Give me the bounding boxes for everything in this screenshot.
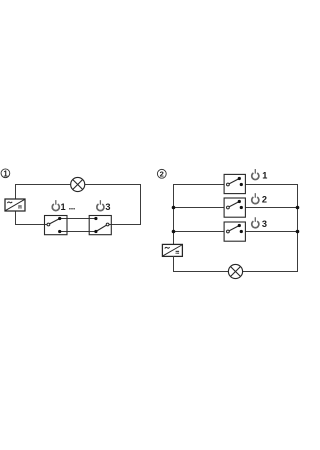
svg-text:2: 2 bbox=[160, 170, 164, 179]
wire: row1 output to right bus bbox=[241, 184, 297, 186]
wire: circuit2 left bus bbox=[173, 184, 175, 245]
wire: S2 output to right rail bbox=[108, 224, 141, 226]
lamp E2 bbox=[228, 264, 242, 278]
wire: S1-S2 lower link bbox=[60, 231, 96, 233]
junction dot left bus row3 bbox=[172, 230, 176, 234]
power icon above S1 bbox=[52, 200, 59, 210]
switch S2 (circuit1 right changeover) bbox=[89, 216, 111, 235]
wire: circuit2 branch row3 bbox=[173, 231, 227, 233]
junction dot right bus row3 bbox=[296, 230, 300, 234]
power icon above S2 bbox=[97, 200, 104, 210]
power icon row1 bbox=[252, 169, 259, 179]
switch S1 (circuit1 left changeover) bbox=[45, 216, 68, 235]
wire: circuit2 right bus bbox=[297, 184, 299, 272]
node label 2 (circled 2) bbox=[157, 169, 166, 178]
junction dot right bus row2 bbox=[296, 206, 300, 210]
wire: row3 output to right bus bbox=[241, 231, 297, 233]
wire: circuit2 branch row1 bbox=[173, 184, 227, 186]
wire: circuit1 left vertical upper bbox=[15, 184, 17, 200]
node label 1 (circled 1) bbox=[1, 169, 10, 178]
svg-text:2: 2 bbox=[262, 195, 267, 205]
power supply G2 bbox=[162, 244, 182, 256]
wire: circuit1 bottom rail to switch S1 bbox=[15, 224, 47, 226]
wire: circuit2 bottom rail bbox=[173, 271, 298, 273]
wire: circuit1 right vertical bbox=[140, 184, 142, 225]
wire: S1-S2 upper link bbox=[60, 218, 96, 220]
wire: G2 bottom to bottom rail bbox=[173, 256, 175, 272]
junction dot left bus row2 bbox=[172, 206, 176, 210]
switch K2 (circuit2 row2) bbox=[224, 198, 245, 217]
power supply G1 bbox=[5, 199, 25, 211]
switch K1 (circuit2 row1) bbox=[224, 174, 245, 193]
svg-text:1: 1 bbox=[3, 169, 8, 178]
svg-text:1: 1 bbox=[61, 202, 66, 212]
svg-text:3: 3 bbox=[105, 202, 110, 212]
wire: circuit1 top rail bbox=[16, 184, 141, 186]
wire: row2 output to right bus bbox=[241, 207, 297, 209]
power icon row2 bbox=[252, 193, 259, 203]
svg-text:1: 1 bbox=[262, 170, 267, 180]
wire: circuit2 branch row2 bbox=[173, 207, 227, 209]
switch K3 (circuit2 row3) bbox=[224, 222, 245, 241]
svg-text:3: 3 bbox=[262, 219, 267, 229]
lamp E1 bbox=[71, 177, 85, 191]
power icon row3 bbox=[252, 217, 259, 227]
wire: circuit1 left vertical lower bbox=[15, 211, 17, 225]
